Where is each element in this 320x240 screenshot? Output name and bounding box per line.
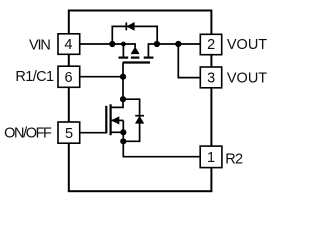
diode D1 body diode of Q1 (cathode left)	[126, 22, 134, 30]
svg-text:VIN: VIN	[29, 37, 50, 53]
pin 2 box	[200, 34, 221, 54]
svg-text:6: 6	[65, 70, 73, 86]
transistor Q1 (P-channel pass FET) source contact stub	[122, 43, 124, 57]
svg-text:R1/C1: R1/C1	[15, 69, 54, 85]
svg-text:3: 3	[207, 70, 215, 86]
pin 1 box	[200, 146, 222, 168]
wire: VIN rail from pin 4 to top FET	[80, 43, 135, 45]
wire: top body diode loop left riser	[112, 26, 157, 44]
wire: Q1 gate vertical down to Q2 drain node	[122, 63, 124, 100]
wire: VOUT branch to pin 3	[178, 44, 200, 78]
wire: ON/OFF pin 5 to Q2 gate	[80, 132, 107, 134]
node: VOUT branch junction	[175, 41, 181, 47]
IC package outline U1	[69, 11, 212, 192]
pin 5 box	[58, 122, 80, 143]
transistor Q1 source contact bar	[119, 56, 129, 58]
svg-text:R2: R2	[225, 152, 243, 168]
transistor Q2 body stub with arrow (pointing into channel)	[111, 117, 124, 124]
svg-text:2: 2	[207, 37, 215, 53]
svg-text:4: 4	[64, 37, 72, 53]
wire: R1/C1 pin 6 to Q1 gate / Q2 drain	[80, 76, 123, 78]
node: Q2 source junction	[120, 129, 126, 135]
node: rail junction at diode left	[109, 41, 115, 47]
transistor Q1 gate bar	[123, 61, 150, 63]
transistor Q2 source stub	[111, 131, 124, 133]
pin 6 box	[58, 66, 80, 87]
svg-text:ON/OFF: ON/OFF	[4, 126, 52, 142]
pin 3 box	[200, 67, 221, 88]
wire: Q2 body diode branch (right)	[123, 99, 140, 141]
diode: Q1 internal body diode (pointing up)	[131, 47, 139, 54]
svg-text:5: 5	[65, 126, 73, 142]
transistor Q2 (N-channel) gate bar	[105, 106, 107, 134]
node: pin 6 gate junction	[120, 74, 126, 80]
diode D2 body diode of Q2 (cathode up)	[135, 116, 144, 124]
wire: Q2 drain lead	[111, 99, 123, 107]
node: Q2 drain node	[120, 96, 126, 102]
transistor Q1 body diode branch wire	[133, 44, 136, 48]
wire: Q2 body-to-source vertical down to pin 1 run	[123, 120, 200, 156]
node: diode D2 anode junction	[120, 138, 126, 144]
transistor Q2 channel bar	[109, 104, 111, 135]
svg-text:VOUT: VOUT	[227, 71, 267, 87]
pin 4 box	[58, 34, 80, 55]
transistor Q1 drain contact bar	[144, 56, 154, 58]
svg-text:1: 1	[207, 150, 215, 166]
node: rail junction at Q1 source contact	[121, 42, 126, 47]
node: rail junction at diode right	[154, 41, 160, 47]
transistor Q1 body contact bar	[131, 56, 140, 58]
svg-text:VOUT: VOUT	[227, 37, 267, 53]
transistor Q1 drain stub to VOUT rail	[148, 44, 200, 57]
